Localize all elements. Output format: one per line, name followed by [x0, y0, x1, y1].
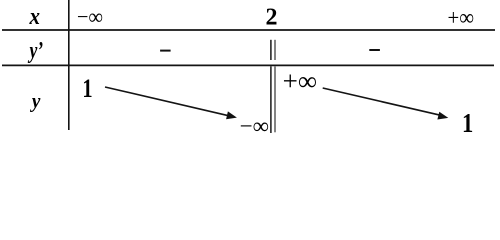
svg-text:2: 2: [266, 5, 278, 31]
double bar (y' row) gray bar: [274, 40, 276, 60]
svg-text:−∞: −∞: [77, 4, 103, 29]
svg-text:y: y: [29, 89, 41, 113]
double bar (y' row) black bar: [270, 40, 272, 60]
decreasing arrow (left branch): [105, 87, 229, 116]
y' sign minus (left): [160, 50, 171, 52]
svg-text:−∞: −∞: [240, 113, 269, 138]
svg-text:y’: y’: [27, 38, 43, 64]
svg-text:+∞: +∞: [448, 5, 475, 30]
double bar (y row) gray bar: [274, 66, 276, 132]
svg-text:x: x: [29, 4, 40, 30]
row divider line 2 (under y' row): [2, 64, 494, 66]
svg-text:1: 1: [462, 108, 473, 138]
double bar (y row) black bar: [270, 66, 272, 133]
svg-text:+∞: +∞: [283, 66, 317, 96]
row divider line 1 (under x row): [2, 29, 495, 31]
y' sign minus (right): [369, 49, 380, 51]
column separator vertical line: [68, 0, 70, 130]
variation table diagram: [0, 0, 500, 146]
decreasing arrow (right branch): [323, 88, 441, 115]
svg-text:1: 1: [82, 74, 92, 103]
